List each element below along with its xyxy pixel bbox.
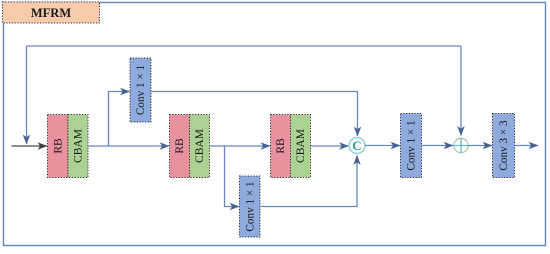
conv 3x3 box [493, 114, 515, 178]
wire CBAM1 to RB2 [88, 145, 169, 147]
wire conv1x1 bottom to concat [260, 156, 357, 207]
wire skip horizontal top [27, 45, 462, 47]
svg-text:RB: RB [275, 138, 287, 154]
svg-text:Conv 1 × 1: Conv 1 × 1 [406, 120, 418, 170]
svg-text:CBAM: CBAM [73, 129, 85, 163]
wire conv1x1 top to concat [151, 92, 358, 137]
svg-text:Conv 3 × 3: Conv 3 × 3 [498, 120, 510, 171]
wire branch down to Conv1x1 bottom [225, 146, 240, 207]
block CBAM1 [68, 115, 88, 178]
conv 1x1 bottom box [240, 176, 261, 237]
svg-text:MFRM: MFRM [31, 6, 71, 20]
MFRM label box [3, 2, 100, 23]
svg-text:RB: RB [53, 138, 65, 154]
wire CBAM3 to concat [311, 145, 349, 147]
block RB1 [48, 115, 69, 178]
block CBAM3 [291, 115, 311, 178]
svg-text:Conv 1 × 1: Conv 1 × 1 [135, 65, 147, 115]
svg-text:RB: RB [174, 138, 186, 154]
wire skip vertical at input junction [26, 46, 28, 144]
wire output [515, 145, 539, 147]
wire branch up to Conv1x1 top [109, 92, 130, 147]
concat node C [349, 138, 365, 154]
svg-text:CBAM: CBAM [194, 129, 206, 163]
conv 1x1 right box [401, 114, 422, 178]
wire input (dark) into RB1 [12, 145, 48, 147]
adder node plus [453, 138, 468, 153]
block CBAM2 [190, 115, 210, 178]
wire CBAM2 to RB3 [210, 145, 271, 147]
wire adder to conv3x3 [469, 145, 493, 147]
svg-text:C: C [352, 138, 361, 153]
wire skip down to adder [460, 46, 462, 136]
wire conv1x1 right to adder [422, 145, 454, 147]
block RB2 [170, 115, 190, 178]
conv 1x1 top box [130, 58, 151, 122]
svg-text:CBAM: CBAM [295, 129, 307, 163]
block RB3 [271, 115, 291, 178]
svg-text:Conv 1 × 1: Conv 1 × 1 [245, 181, 257, 231]
wire concat to conv1x1 right [365, 145, 400, 147]
